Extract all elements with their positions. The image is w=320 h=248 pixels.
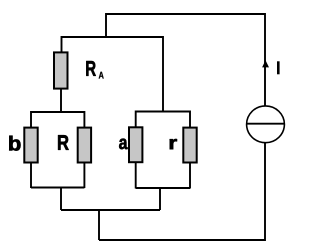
label I	[277, 61, 280, 74]
current source circle	[247, 106, 285, 143]
wire right pair right bottom stub	[189, 163, 191, 189]
label b	[9, 136, 20, 151]
wire right pair feed down	[159, 187, 161, 210]
wire left pair bottom rail	[31, 187, 84, 189]
resistor RA	[54, 52, 68, 88]
wire left pair top rail	[31, 111, 84, 113]
wire right pair left top stub	[135, 111, 137, 128]
resistor b (left pair left)	[24, 128, 37, 163]
wire bottom T drop	[98, 210, 100, 240]
wire right pair bottom rail	[136, 187, 190, 189]
resistor R (left pair right)	[78, 128, 91, 163]
wire bottom horizontal	[99, 239, 265, 241]
wire left pair right bottom stub	[83, 163, 85, 189]
wire left pair right top stub	[83, 111, 85, 128]
wire right branch vertical	[264, 13, 266, 106]
label RA	[86, 61, 96, 76]
wire left pair left top stub	[30, 111, 32, 128]
wire right pair feed from second wire	[162, 36, 164, 112]
wire right pair top rail	[136, 111, 190, 113]
label a	[119, 139, 127, 150]
wire left pair left bottom stub	[30, 163, 32, 189]
wire right pair right top stub	[189, 111, 191, 128]
current source diameter line	[247, 123, 285, 125]
label R	[58, 135, 69, 150]
wire top horizontal	[106, 13, 265, 15]
wire current source bottom lead	[264, 143, 266, 242]
wire RA top lead	[61, 36, 63, 52]
wire top-left vertical drop	[105, 13, 107, 37]
wire second horizontal	[62, 36, 164, 38]
wire right pair left bottom stub	[135, 162, 137, 188]
wire bottom mid horizontal	[61, 209, 160, 211]
wire RA bottom lead	[60, 89, 62, 113]
current arrow I	[262, 60, 269, 67]
resistor r (right pair right)	[183, 128, 196, 163]
resistor a (right pair left)	[129, 127, 142, 162]
label r	[170, 139, 177, 149]
wire left pair feed down	[60, 187, 62, 211]
